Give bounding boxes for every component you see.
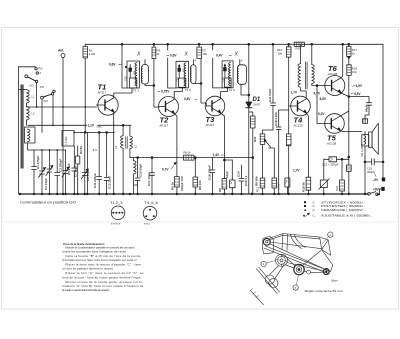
svg-text:10k: 10k <box>277 52 282 56</box>
transistor T5 <box>325 114 345 134</box>
cord to drum <box>269 264 284 278</box>
IF secondary S2 rounded <box>191 65 196 84</box>
SECTION-LEFT <box>19 44 132 194</box>
capacitor C14 <box>239 165 244 194</box>
resistor R3 <box>152 47 156 59</box>
svg-text:R5 1k: R5 1k <box>170 182 174 190</box>
svg-text:C18 100nF: C18 100nF <box>207 165 211 180</box>
resistor R12 <box>260 178 265 188</box>
wire switch-box top <box>19 66 36 68</box>
wire T3 collector <box>221 88 228 99</box>
svg-text:AF117: AF117 <box>160 124 169 128</box>
thermistor R20 <box>323 159 325 180</box>
SECTION-MIDSTRINGS <box>114 124 254 194</box>
wire switch2 down <box>42 95 53 132</box>
capacitor C19 <box>210 158 215 194</box>
IF secondary S3 rounded <box>238 65 247 85</box>
resistor R8 <box>194 158 196 177</box>
svg-text:–9V: –9V <box>373 178 380 182</box>
capacitor C11 <box>97 132 102 194</box>
svg-text:3-9: 3-9 <box>93 148 98 152</box>
svg-text:C2 10pF: C2 10pF <box>44 178 48 190</box>
svg-text:9,6V: 9,6V <box>109 63 116 67</box>
resistor R5 <box>175 177 180 188</box>
svg-text:C11 220pF: C11 220pF <box>93 173 97 188</box>
svg-text:30mm: 30mm <box>331 280 338 283</box>
svg-text:0A70: 0A70 <box>254 103 261 107</box>
wire S1 bottom to T2 base <box>145 59 159 107</box>
wire R10 to T4 base <box>289 57 292 106</box>
node 1,4V label <box>213 152 223 156</box>
left pulley post <box>262 236 274 254</box>
IF can T1.1 <box>127 61 140 88</box>
wire pot wiper string <box>269 148 275 178</box>
svg-text:C15 50pF: C15 50pF <box>138 163 142 177</box>
svg-text:X: X <box>136 52 141 58</box>
svg-text:R9: R9 <box>218 188 222 192</box>
driver transformer core <box>306 62 308 89</box>
svg-text:un tour en passant derrière le: un tour en passant derrière le moyeu. <box>62 267 114 271</box>
svg-text:AJUSTABLE à fil ( 05086/..: AJUSTABLE à fil ( 05086/.. <box>321 213 372 217</box>
transistor T2 <box>159 97 179 117</box>
wire L4 taps <box>122 125 124 194</box>
coil L3a boxed <box>25 127 36 143</box>
svg-text:C14: C14 <box>237 171 241 177</box>
svg-text:Ant.: Ant. <box>58 49 64 53</box>
resistor R22 <box>363 119 368 124</box>
svg-text:C17 10nF: C17 10nF <box>147 172 151 186</box>
svg-text:C10: C10 <box>123 76 127 81</box>
switch lever GO2 <box>41 96 44 99</box>
svg-text:4,5V: 4,5V <box>354 92 361 96</box>
svg-text:0,8V: 0,8V <box>184 97 191 101</box>
resistor R16 <box>306 177 311 190</box>
speaker LS <box>369 132 373 147</box>
capacitor C17 <box>150 158 155 194</box>
svg-text:R9 56k: R9 56k <box>255 176 259 186</box>
svg-text:X: X <box>234 52 239 58</box>
junction dots on ground bus <box>19 193 366 195</box>
wire switch-box left vertical <box>18 67 20 194</box>
chassis arch bridge <box>282 234 306 251</box>
SECTION-OUTPUT <box>253 42 385 195</box>
svg-text:12k: 12k <box>203 52 208 56</box>
svg-text:L5: L5 <box>134 144 138 148</box>
wire tap line y107 to T1 base <box>29 106 96 108</box>
capacitor C23 64uF <box>349 97 372 119</box>
wire rail to D1 <box>248 44 250 102</box>
driver transformer primary <box>298 64 301 88</box>
oscillator transformer L4 <box>121 136 124 149</box>
wire T4 collector to driver <box>301 89 307 99</box>
wire can T1.1 feed <box>122 44 127 88</box>
svg-text:0,75V: 0,75V <box>161 90 170 94</box>
post pulley <box>263 238 270 245</box>
node 1,1V label <box>87 122 98 127</box>
junction dots tap lines <box>36 106 115 151</box>
elco C26 <box>285 178 290 187</box>
svg-text:10µF: 10µF <box>225 171 229 178</box>
antenna terminal Ant. <box>61 54 65 58</box>
wire L1 taps <box>19 90 27 108</box>
SECTION-STAGES <box>96 43 261 194</box>
legend bullet 4 arrow <box>303 215 305 217</box>
wire secondary to T6 base <box>312 84 325 86</box>
wire L3a down <box>27 143 29 150</box>
legend bullet 2 <box>304 205 306 207</box>
svg-text:R11: R11 <box>253 136 257 142</box>
resistor R18 <box>347 65 351 76</box>
output transformer TR2 <box>362 135 369 147</box>
svg-text:C7 86pF: C7 86pF <box>73 165 77 177</box>
big pulley <box>276 254 288 266</box>
svg-text:R8 10k: R8 10k <box>198 180 202 190</box>
legend bullet 1 <box>304 201 306 203</box>
svg-text:0,6V: 0,6V <box>170 54 177 58</box>
transistor T3 <box>205 96 225 116</box>
wire L2 taps <box>27 107 30 126</box>
wire S2 top tap <box>192 60 194 65</box>
svg-text:T1 3: T1 3 <box>229 88 235 92</box>
wire T2 emitter <box>174 114 177 177</box>
capacitor C24 <box>272 178 277 188</box>
wire T6 collector to rail <box>341 44 343 78</box>
ferrite rod <box>21 85 23 168</box>
resistor R2 <box>77 146 79 194</box>
svg-text:4,7V: 4,7V <box>314 92 321 96</box>
svg-text:Commutateur en position GO: Commutateur en position GO <box>20 201 76 205</box>
wire T2 collector <box>174 88 182 99</box>
switch lever GO1 <box>25 75 28 78</box>
svg-text:C5 35pF: C5 35pF <box>67 163 71 175</box>
wire string <box>86 132 88 194</box>
svg-text:T1 2: T1 2 <box>185 88 191 92</box>
SECTION-TEXTBLOCK <box>62 242 143 292</box>
capacitor C25 <box>365 159 383 165</box>
svg-text:C19 3,2nF: C19 3,2nF <box>274 112 278 126</box>
wire T6 emitter join <box>341 93 349 97</box>
balloon 5 <box>293 285 298 290</box>
wire C16 top <box>224 160 232 179</box>
SECTION-TUNING <box>32 132 114 195</box>
svg-text:1,1V: 1,1V <box>88 123 95 127</box>
svg-text:R16 5k: R16 5k <box>302 182 306 192</box>
svg-text:5Ω 0,25W: 5Ω 0,25W <box>360 144 364 157</box>
drive drum <box>294 264 304 274</box>
junction dots on osc line <box>84 132 86 134</box>
trimmer C5 <box>62 150 69 194</box>
svg-text:T1.2_3: T1.2_3 <box>110 200 123 205</box>
svg-text:0,4V: 0,4V <box>216 54 223 58</box>
driver transformer secondary <box>312 65 315 84</box>
wire feed line y157 <box>130 157 253 159</box>
capacitor C13 <box>104 132 109 194</box>
idler small <box>307 270 311 274</box>
trimmer C2 <box>39 150 46 194</box>
tuning drum circles <box>265 275 274 284</box>
tuning shaft <box>257 267 280 293</box>
svg-text:fond de la cuve - faire au moi: fond de la cuve - faire au moins passer … <box>62 275 141 279</box>
transistor T4 <box>291 96 311 116</box>
svg-text:L4: L4 <box>114 145 118 149</box>
resistor R13 <box>288 106 290 134</box>
transistor T1 <box>98 95 118 115</box>
resistor R10 <box>286 47 291 57</box>
balloon 4 <box>328 232 333 237</box>
svg-text:AF117: AF117 <box>98 91 107 95</box>
svg-text:X: X <box>184 52 189 58</box>
svg-text:4,7nF: 4,7nF <box>277 183 281 190</box>
svg-text:1,4V: 1,4V <box>213 153 220 157</box>
trimmer C4 <box>46 150 53 194</box>
wire top supply rail <box>85 43 383 45</box>
switch PO contact circles <box>35 68 37 70</box>
svg-text:+9V: +9V <box>373 187 380 191</box>
trimmer C9 <box>81 132 88 194</box>
svg-text:R12: R12 <box>256 186 260 192</box>
wire can T1.2 feed <box>168 44 176 88</box>
potentiometer R11 volume <box>263 130 274 134</box>
oscillator transformer core <box>126 137 127 149</box>
svg-text:0,2V: 0,2V <box>318 112 325 116</box>
svg-text:C3 280pF: C3 280pF <box>59 158 63 172</box>
wire S3 bottom to D1 string <box>241 84 249 95</box>
wire bottom ground bus <box>20 193 380 195</box>
wire left string top <box>28 149 66 151</box>
balloon 2 <box>261 261 266 266</box>
wire S3 top tap <box>239 60 241 65</box>
on-off switch to +9V <box>368 193 371 196</box>
capacitor C22 320uF <box>329 157 337 162</box>
wire T4 emitter <box>306 113 308 177</box>
svg-text:R21: R21 <box>335 185 339 191</box>
wire T1 collector <box>114 88 132 98</box>
pinout circle T4-T6 <box>143 206 157 220</box>
svg-text:0,7V: 0,7V <box>162 168 169 172</box>
svg-text:T1 1: T1 1 <box>133 89 139 93</box>
wire S1 top <box>144 60 146 65</box>
svg-text:1,7V: 1,7V <box>293 169 300 173</box>
svg-text:AF117: AF117 <box>206 123 215 127</box>
svg-text:320µF: 320µF <box>367 170 375 174</box>
svg-text:toutes les contraintes dans l': toutes les contraintes dans l'obligation… <box>62 250 127 254</box>
svg-text:C19 0,1: C19 0,1 <box>244 175 248 186</box>
svg-text:C1 175pF: C1 175pF <box>36 155 40 169</box>
svg-text:C22 + 320µF: C22 + 320µF <box>322 163 339 167</box>
svg-text:é m b e: é m b e <box>111 222 121 226</box>
wire R19 string <box>348 157 350 165</box>
IF secondary S1 <box>142 65 149 85</box>
pinout circle T1-T3 <box>111 206 125 220</box>
svg-text:d'entraînement et faire trois: d'entraînement et faire trois tours comp… <box>62 258 137 262</box>
oscillator transformer L5 <box>130 136 133 149</box>
wire output node <box>348 75 350 157</box>
battery -9V tap <box>382 179 383 181</box>
svg-text:C21 64nF: C21 64nF <box>268 88 272 102</box>
svg-text:C9 60pF: C9 60pF <box>86 169 90 181</box>
wire T5 collector to node <box>340 111 349 116</box>
capacitor C1 <box>32 150 37 194</box>
capacitor C15 <box>135 158 140 194</box>
wire T5 collector to transformer <box>340 130 362 133</box>
wire T1 emitter string <box>113 132 115 194</box>
diode D1 <box>246 102 252 108</box>
coil L1 <box>27 90 30 104</box>
svg-text:Régler entre lache 69 mm: Régler entre lache 69 mm <box>305 289 344 293</box>
transistor T6 <box>325 76 345 96</box>
wire C22 line <box>324 158 349 160</box>
svg-text:8,6V: 8,6V <box>320 97 327 101</box>
wire S2 bottom to T3 base <box>193 59 206 106</box>
oscillator coil L3 box <box>62 131 74 147</box>
node 4,5V labels <box>353 85 356 87</box>
resistor R17 <box>347 47 351 57</box>
wire AGC line y125 <box>28 124 131 126</box>
SECTION-MECH <box>250 232 343 305</box>
wire antenna down <box>62 58 64 195</box>
coil L6 <box>134 161 137 175</box>
svg-text:CERAMIQUE ( 64(M)V/..: CERAMIQUE ( 64(M)V/.. <box>321 208 365 212</box>
wire bias to T5 base <box>317 86 325 124</box>
resistor R21 <box>341 159 343 180</box>
wire can T1.3 feed <box>213 44 222 88</box>
wire T1 emitter <box>113 112 115 132</box>
chassis right wing <box>320 237 331 255</box>
resistor R9b T3 emitter <box>222 179 227 189</box>
svg-text:AC125: AC125 <box>294 124 304 128</box>
svg-text:R6 1k: R6 1k <box>184 151 192 155</box>
IF can T1.2 <box>176 61 189 88</box>
svg-text:AC128: AC128 <box>328 72 338 76</box>
svg-text:L3 400: L3 400 <box>64 136 68 144</box>
resistor R19 <box>346 165 351 171</box>
svg-text:100µF 10V: 100µF 10V <box>180 176 184 191</box>
dial cord run upper <box>270 242 326 270</box>
resistor R7 <box>197 47 202 59</box>
resistor R6 <box>184 155 195 160</box>
wire L5 taps <box>129 125 131 157</box>
svg-text:Osc.: Osc. <box>97 125 103 129</box>
elco C16 <box>231 160 233 194</box>
right pulley <box>323 269 329 275</box>
svg-text:T4_5_6: T4_5_6 <box>144 200 158 205</box>
svg-text:2,2M: 2,2M <box>89 52 96 56</box>
wire R1 to rail <box>84 44 86 46</box>
cord runs lower <box>286 251 324 273</box>
wire osc box line <box>74 131 114 133</box>
legend bullet 3 <box>304 209 306 211</box>
svg-text:C13 22nF: C13 22nF <box>108 175 112 189</box>
svg-text:R2 6k: R2 6k <box>79 146 83 154</box>
capacitor C7 <box>72 146 77 194</box>
wire D1 down <box>249 108 253 194</box>
capacitor C20 <box>276 110 289 194</box>
svg-text:e b c: e b c <box>144 222 151 226</box>
coil L2 <box>27 107 30 121</box>
resistor R15 on rail <box>294 42 304 46</box>
svg-text:AC128: AC128 <box>327 142 337 146</box>
svg-text:130: 130 <box>352 70 357 74</box>
base plate <box>264 246 333 274</box>
wire right rail <box>382 44 384 179</box>
resistor R1 <box>83 47 88 59</box>
chassis top frame <box>266 234 322 250</box>
SECTION-BELOWBUS <box>19 193 372 226</box>
capacitor C21 <box>271 44 276 130</box>
wire R1 down <box>84 58 86 132</box>
svg-text:64µF: 64µF <box>364 105 368 112</box>
wire switch1 down <box>36 83 38 107</box>
IF can T1.3 <box>222 61 233 88</box>
svg-text:4,5V: 4,5V <box>356 84 363 88</box>
svg-text:la corde en accrochant la bouc: la corde en accrochant la boucle au ress… <box>62 288 109 292</box>
capacitor C3 <box>55 150 60 194</box>
wire T3 emitter <box>221 113 225 160</box>
svg-text:1,7V: 1,7V <box>291 91 298 95</box>
